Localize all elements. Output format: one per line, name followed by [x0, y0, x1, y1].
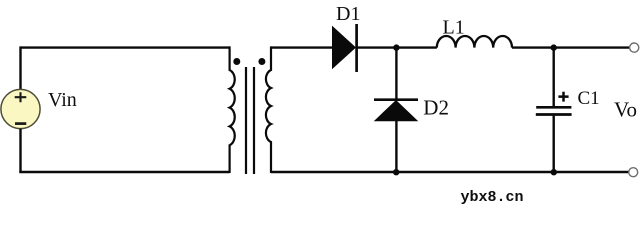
transformer T1 primary winding: [230, 46, 235, 173]
wire node B to output plus terminal: [554, 46, 630, 48]
inductor L1: [437, 36, 512, 48]
transformer T1 core: [246, 67, 254, 174]
wire secondary top to D1 anode: [271, 46, 333, 48]
wire bottom right (transformer secondary to output minus terminal): [271, 171, 629, 173]
svg-text:D1: D1: [336, 3, 360, 25]
transformer T1 secondary winding: [266, 46, 271, 173]
capacitor C1: [536, 48, 572, 172]
wire top-left (Vin to transformer primary): [21, 46, 230, 48]
transformer T1 phase dot primary: [233, 58, 240, 65]
node D junction dot (C1 bottom): [551, 169, 557, 175]
voltage source Vin: [1, 89, 40, 128]
diode D2: [374, 48, 418, 172]
wire bottom-left (Vin to transformer primary): [19, 171, 229, 173]
node B junction dot: [551, 44, 557, 50]
svg-text:Vin: Vin: [48, 89, 77, 111]
wire node A to L1: [396, 46, 436, 48]
node C junction dot (D2 bottom): [393, 169, 399, 175]
wire left vertical lower: [19, 129, 21, 172]
svg-text:Vo: Vo: [614, 97, 637, 121]
output terminal minus: [629, 168, 638, 177]
node A junction dot: [393, 44, 399, 50]
diode D1: [333, 24, 357, 72]
output terminal plus: [630, 43, 639, 52]
capacitor C1 polarity plus sign: [558, 92, 568, 102]
svg-text:ybx8.cn: ybx8.cn: [461, 189, 524, 206]
svg-text:C1: C1: [578, 88, 600, 109]
transformer T1 phase dot secondary: [258, 58, 265, 65]
wire left vertical upper: [19, 46, 21, 90]
wire D1 cathode to node A: [357, 46, 397, 48]
wire L1 to node B: [512, 46, 554, 48]
svg-text:L1: L1: [443, 17, 465, 39]
svg-text:D2: D2: [423, 95, 449, 119]
